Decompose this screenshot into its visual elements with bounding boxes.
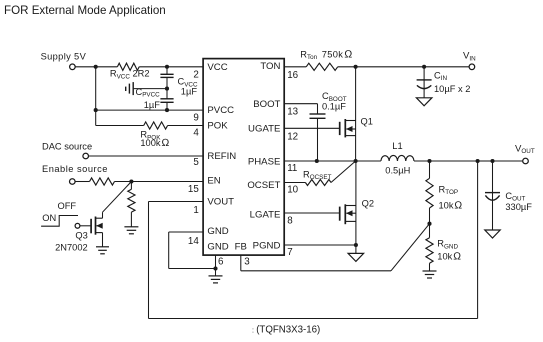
- svg-text:13: 13: [287, 106, 298, 117]
- svg-text:9: 9: [193, 113, 198, 124]
- svg-text:10k Ω: 10k Ω: [437, 251, 461, 262]
- svg-text:10: 10: [287, 185, 298, 196]
- svg-text:1: 1: [193, 205, 198, 216]
- svg-text:RVCC 2R2: RVCC 2R2: [110, 69, 150, 81]
- svg-text:1µF: 1µF: [144, 100, 161, 110]
- svg-text:5: 5: [193, 157, 199, 168]
- svg-text:DAC source: DAC source: [42, 142, 92, 152]
- svg-text:8: 8: [287, 216, 293, 227]
- svg-text:750k Ω: 750k Ω: [322, 48, 353, 60]
- svg-text:Q2: Q2: [362, 199, 374, 209]
- svg-text:Enable source: Enable source: [42, 164, 108, 174]
- svg-text:PHASE: PHASE: [248, 156, 281, 167]
- svg-text:ON: ON: [42, 213, 56, 223]
- svg-text:100k Ω: 100k Ω: [140, 138, 169, 149]
- svg-text:4: 4: [193, 127, 199, 138]
- svg-text:2: 2: [193, 69, 198, 80]
- svg-text:VCC: VCC: [207, 62, 227, 73]
- svg-text:PGND: PGND: [253, 240, 281, 251]
- svg-text:(TQFN3X3-16): (TQFN3X3-16): [256, 325, 320, 336]
- svg-text:CIN: CIN: [434, 70, 447, 82]
- svg-text:VOUT: VOUT: [207, 197, 234, 208]
- svg-text:0.5µH: 0.5µH: [385, 166, 410, 176]
- svg-text:RGND: RGND: [437, 239, 458, 251]
- svg-text:10k Ω: 10k Ω: [439, 200, 463, 211]
- svg-text:OFF: OFF: [58, 201, 77, 211]
- svg-text:LGATE: LGATE: [250, 209, 281, 220]
- svg-text:0.1µF: 0.1µF: [322, 102, 346, 112]
- svg-text:6: 6: [218, 256, 224, 267]
- svg-text:14: 14: [188, 236, 199, 247]
- svg-text:3: 3: [244, 256, 250, 267]
- svg-text:7: 7: [287, 247, 292, 258]
- svg-text:RTOP: RTOP: [439, 184, 459, 196]
- svg-text:2N7002: 2N7002: [55, 243, 88, 253]
- svg-text:POK: POK: [207, 121, 228, 132]
- svg-text:330µF: 330µF: [505, 202, 532, 212]
- svg-text:UGATE: UGATE: [248, 124, 280, 135]
- svg-text:10µF x 2: 10µF x 2: [434, 84, 470, 94]
- svg-text:VIN: VIN: [463, 51, 476, 63]
- svg-text:Q3: Q3: [75, 230, 87, 240]
- svg-text:PVCC: PVCC: [207, 105, 234, 116]
- svg-text:GND: GND: [207, 226, 228, 237]
- svg-text:11: 11: [287, 163, 297, 174]
- svg-text:OCSET: OCSET: [247, 180, 280, 191]
- svg-text:COUT: COUT: [505, 191, 525, 203]
- svg-text:FOR External Mode Application: FOR External Mode Application: [4, 4, 166, 17]
- svg-text:L1: L1: [392, 141, 402, 151]
- svg-text:15: 15: [188, 184, 199, 195]
- svg-text:BOOT: BOOT: [253, 99, 280, 110]
- svg-text:12: 12: [287, 132, 298, 143]
- svg-text:Q1: Q1: [361, 116, 373, 126]
- svg-text:Supply 5V: Supply 5V: [41, 51, 87, 61]
- svg-text:TON: TON: [260, 61, 280, 72]
- svg-text::: :: [252, 328, 254, 335]
- svg-text:RTon: RTon: [300, 49, 317, 61]
- svg-text:GND: GND: [207, 241, 228, 252]
- svg-text:VOUT: VOUT: [515, 143, 535, 155]
- svg-text:FB: FB: [235, 241, 247, 252]
- svg-text:16: 16: [287, 70, 298, 81]
- svg-text:EN: EN: [207, 175, 220, 186]
- svg-text:1µF: 1µF: [181, 87, 198, 97]
- svg-text:ROCSET: ROCSET: [303, 169, 332, 181]
- svg-text:REFIN: REFIN: [207, 151, 236, 162]
